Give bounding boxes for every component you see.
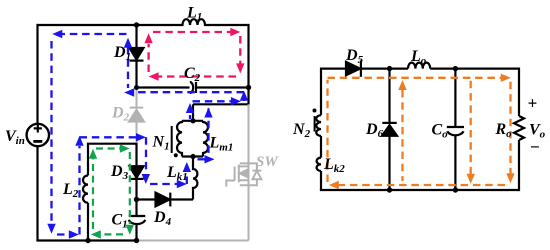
arrow blue down left (47, 224, 55, 234)
diode D4 (156, 193, 170, 207)
wire Co branch upper (454, 69, 456, 127)
junction C2 right rail node (246, 85, 251, 90)
arrow green down right (126, 225, 134, 235)
arrow blue right bottom (69, 230, 79, 238)
transformer top connector (182, 120, 203, 122)
arrow blue up D1 (124, 38, 132, 48)
wire orange loop right vertical (509, 82, 511, 174)
arrow blue up Lm1 (204, 108, 212, 118)
wire blue loop rail stub (243, 97, 245, 101)
svg-text:N2: N2 (292, 121, 311, 140)
wire D3 to C1 (135, 179, 137, 216)
wire blue loop L2 vertical (78, 146, 80, 235)
arrow blue right H5 (136, 133, 146, 141)
junction D6 top node (387, 66, 392, 71)
junction Co bottom node (453, 187, 458, 192)
winding N2 (316, 115, 321, 136)
capacitor C1 (129, 215, 146, 217)
wire blue loop Lm1 vertical (207, 109, 209, 156)
inductor L2 (83, 176, 88, 203)
wire D1 to C2 node (135, 61, 137, 88)
svg-text:D6: D6 (365, 121, 384, 140)
arrow blue left top (52, 30, 62, 38)
svg-text:C2: C2 (184, 65, 201, 84)
wire blue loop D1 vertical (127, 47, 129, 88)
wire riser to transformer top (192, 104, 194, 121)
svg-text:Lk2: Lk2 (323, 156, 345, 175)
wire Lo to top right corner (430, 67, 519, 69)
wire pink loop bottom horizontal (157, 75, 236, 77)
svg-text:N1: N1 (152, 134, 170, 153)
diode D2 gray (130, 107, 143, 109)
wire orange loop left vertical (326, 80, 328, 182)
wire green loop right vertical (129, 152, 131, 224)
junction D6 bottom node (387, 187, 392, 192)
wire orange loop D6 vertical (401, 90, 403, 181)
wire D6 branch lower (388, 136, 390, 190)
svg-text:D4: D4 (153, 209, 172, 228)
wire L2 branch upper (87, 144, 89, 176)
arrow orange left bottom (329, 181, 339, 189)
core bar N2 (314, 116, 316, 132)
junction transformer bottom node (190, 154, 195, 159)
wire D4 left (137, 198, 156, 200)
core bar N1 (171, 126, 173, 153)
arrow green up left (89, 149, 97, 159)
wire green loop top horizontal (96, 147, 121, 149)
arrow blue up riser (186, 103, 194, 113)
capacitor Co (447, 126, 464, 128)
wire Co branch lower (454, 136, 456, 190)
arrow blue left C2 (124, 88, 134, 96)
arrow pink up left (144, 33, 152, 43)
wire N2 to Lk2 (320, 136, 322, 158)
wire pink loop top horizontal (153, 31, 232, 33)
wire pink loop left vertical (147, 44, 149, 72)
arrow blue down D3 (142, 174, 150, 184)
diode D6 (382, 122, 396, 124)
svg-text:C1: C1 (112, 212, 128, 231)
wire top right horizontal with D5 and Lo (321, 67, 346, 69)
wire gray SW rail (248, 104, 250, 240)
wire bottom left horizontal (36, 239, 136, 241)
capacitor C2 (190, 82, 193, 93)
wire D3 branch upper (135, 144, 137, 167)
wire green loop bottom horizontal (100, 233, 123, 235)
wire orange loop bottom horizontal (338, 184, 505, 186)
wire inner loop top (88, 143, 137, 144)
wire D1 branch upper (135, 25, 137, 49)
wire gray bottom return (137, 240, 249, 242)
wire orange loop Co vertical (470, 81, 472, 175)
arrow blue up L2 (75, 136, 83, 146)
arrow blue right step (231, 97, 241, 105)
diode D3 (130, 166, 144, 178)
arrow pink left bottom (149, 72, 159, 80)
junction transformer top node (190, 118, 195, 123)
arrow orange right top (501, 74, 511, 82)
transformer bottom connector (182, 155, 203, 157)
junction D1 top wire (134, 22, 139, 27)
svg-text:D2: D2 (111, 105, 130, 124)
junction D3 D4 node (134, 197, 139, 202)
wire D5 to Lo (361, 67, 408, 69)
polarity dot N1 (174, 153, 178, 157)
wire blue loop bottom horizontal (57, 233, 70, 235)
svg-text:Lo: Lo (410, 48, 427, 67)
junction C1 bottom node (134, 238, 139, 243)
wire right edge lower (518, 140, 520, 191)
wire gray D2 lower (136, 122, 138, 143)
wire C2 right (196, 86, 249, 88)
svg-text:−: − (530, 138, 540, 157)
wire bottom right horizontal (320, 189, 519, 191)
wire blue loop left vertical (50, 41, 52, 227)
winding N1 (177, 121, 182, 157)
wire C1 to bottom (135, 224, 137, 240)
polarity dot N2 (313, 109, 317, 113)
diode D1 (130, 48, 144, 60)
wire right edge upper (518, 68, 520, 117)
svg-text:SW: SW (256, 154, 279, 170)
wire D4 right (172, 198, 194, 200)
wire blue loop top horizontal (58, 33, 129, 35)
svg-text:Lk1: Lk1 (166, 164, 188, 183)
wire blue loop C2 horizontal (134, 91, 244, 93)
arrow blue up Lk (183, 162, 191, 172)
junction L2 bottom node (85, 238, 90, 243)
transistor SW mosfet (234, 167, 236, 181)
wire blue loop riser stub (189, 115, 191, 119)
arrow green right top (120, 144, 130, 152)
source Vin (27, 124, 49, 146)
wire blue loop above inner top (80, 136, 140, 138)
transistor SW body diode (240, 163, 261, 185)
arrow orange down Co (467, 174, 475, 184)
wire blue loop D4 horizontal (150, 183, 178, 185)
arrow blue right SW (205, 155, 215, 163)
svg-text:Co: Co (432, 122, 449, 141)
junction Co top node (453, 66, 458, 71)
svg-text:D3: D3 (110, 163, 129, 182)
arrow orange down right (506, 173, 514, 183)
wire blue loop Lk1 vertical (186, 173, 188, 185)
wire green loop left vertical (92, 156, 94, 229)
resistor Ro (514, 116, 524, 140)
wire D6 branch upper (388, 69, 390, 123)
arrow green left bottom (91, 230, 101, 238)
svg-text:D5: D5 (345, 47, 364, 66)
wire top left horizontal with L1 (38, 19, 249, 25)
wire C2 left (137, 86, 190, 88)
wire Lk2 to bottom (320, 171, 322, 190)
winding Lk1 riser (193, 157, 197, 200)
winding Lk2 (317, 158, 321, 171)
wire pink loop right vertical (239, 36, 241, 66)
wire blue loop D3 vertical (145, 137, 147, 173)
arrow blue up rail (240, 91, 248, 101)
arrow pink down right (236, 63, 244, 73)
wire right rail upper black (247, 24, 249, 104)
wire step horizontal N1 to rail (193, 103, 250, 105)
wire blue loop step horizontal (193, 100, 233, 102)
svg-text:+: + (528, 94, 538, 113)
diode D5 (346, 62, 360, 75)
wire N2 branch upper (320, 68, 322, 116)
winding Lm1 (203, 121, 208, 157)
svg-text:Lm1: Lm1 (209, 134, 234, 153)
arrow orange up D6 (398, 80, 406, 90)
arrow pink right top (230, 28, 240, 36)
svg-text:L1: L1 (186, 5, 202, 24)
inductor Lo (408, 63, 430, 69)
wire left vertical upper (36, 24, 38, 125)
wire left vertical lower (36, 146, 38, 241)
wire blue loop toward SW (198, 158, 207, 160)
arrow blue right D4 (177, 180, 187, 188)
junction D1 D2 C2 node (134, 85, 139, 90)
svg-text:Vin: Vin (5, 128, 25, 147)
wire orange loop top horizontal (328, 77, 502, 79)
wire L2 branch lower (87, 203, 89, 241)
svg-text:L2: L2 (62, 181, 79, 200)
wire gray D2 upper (136, 88, 138, 108)
